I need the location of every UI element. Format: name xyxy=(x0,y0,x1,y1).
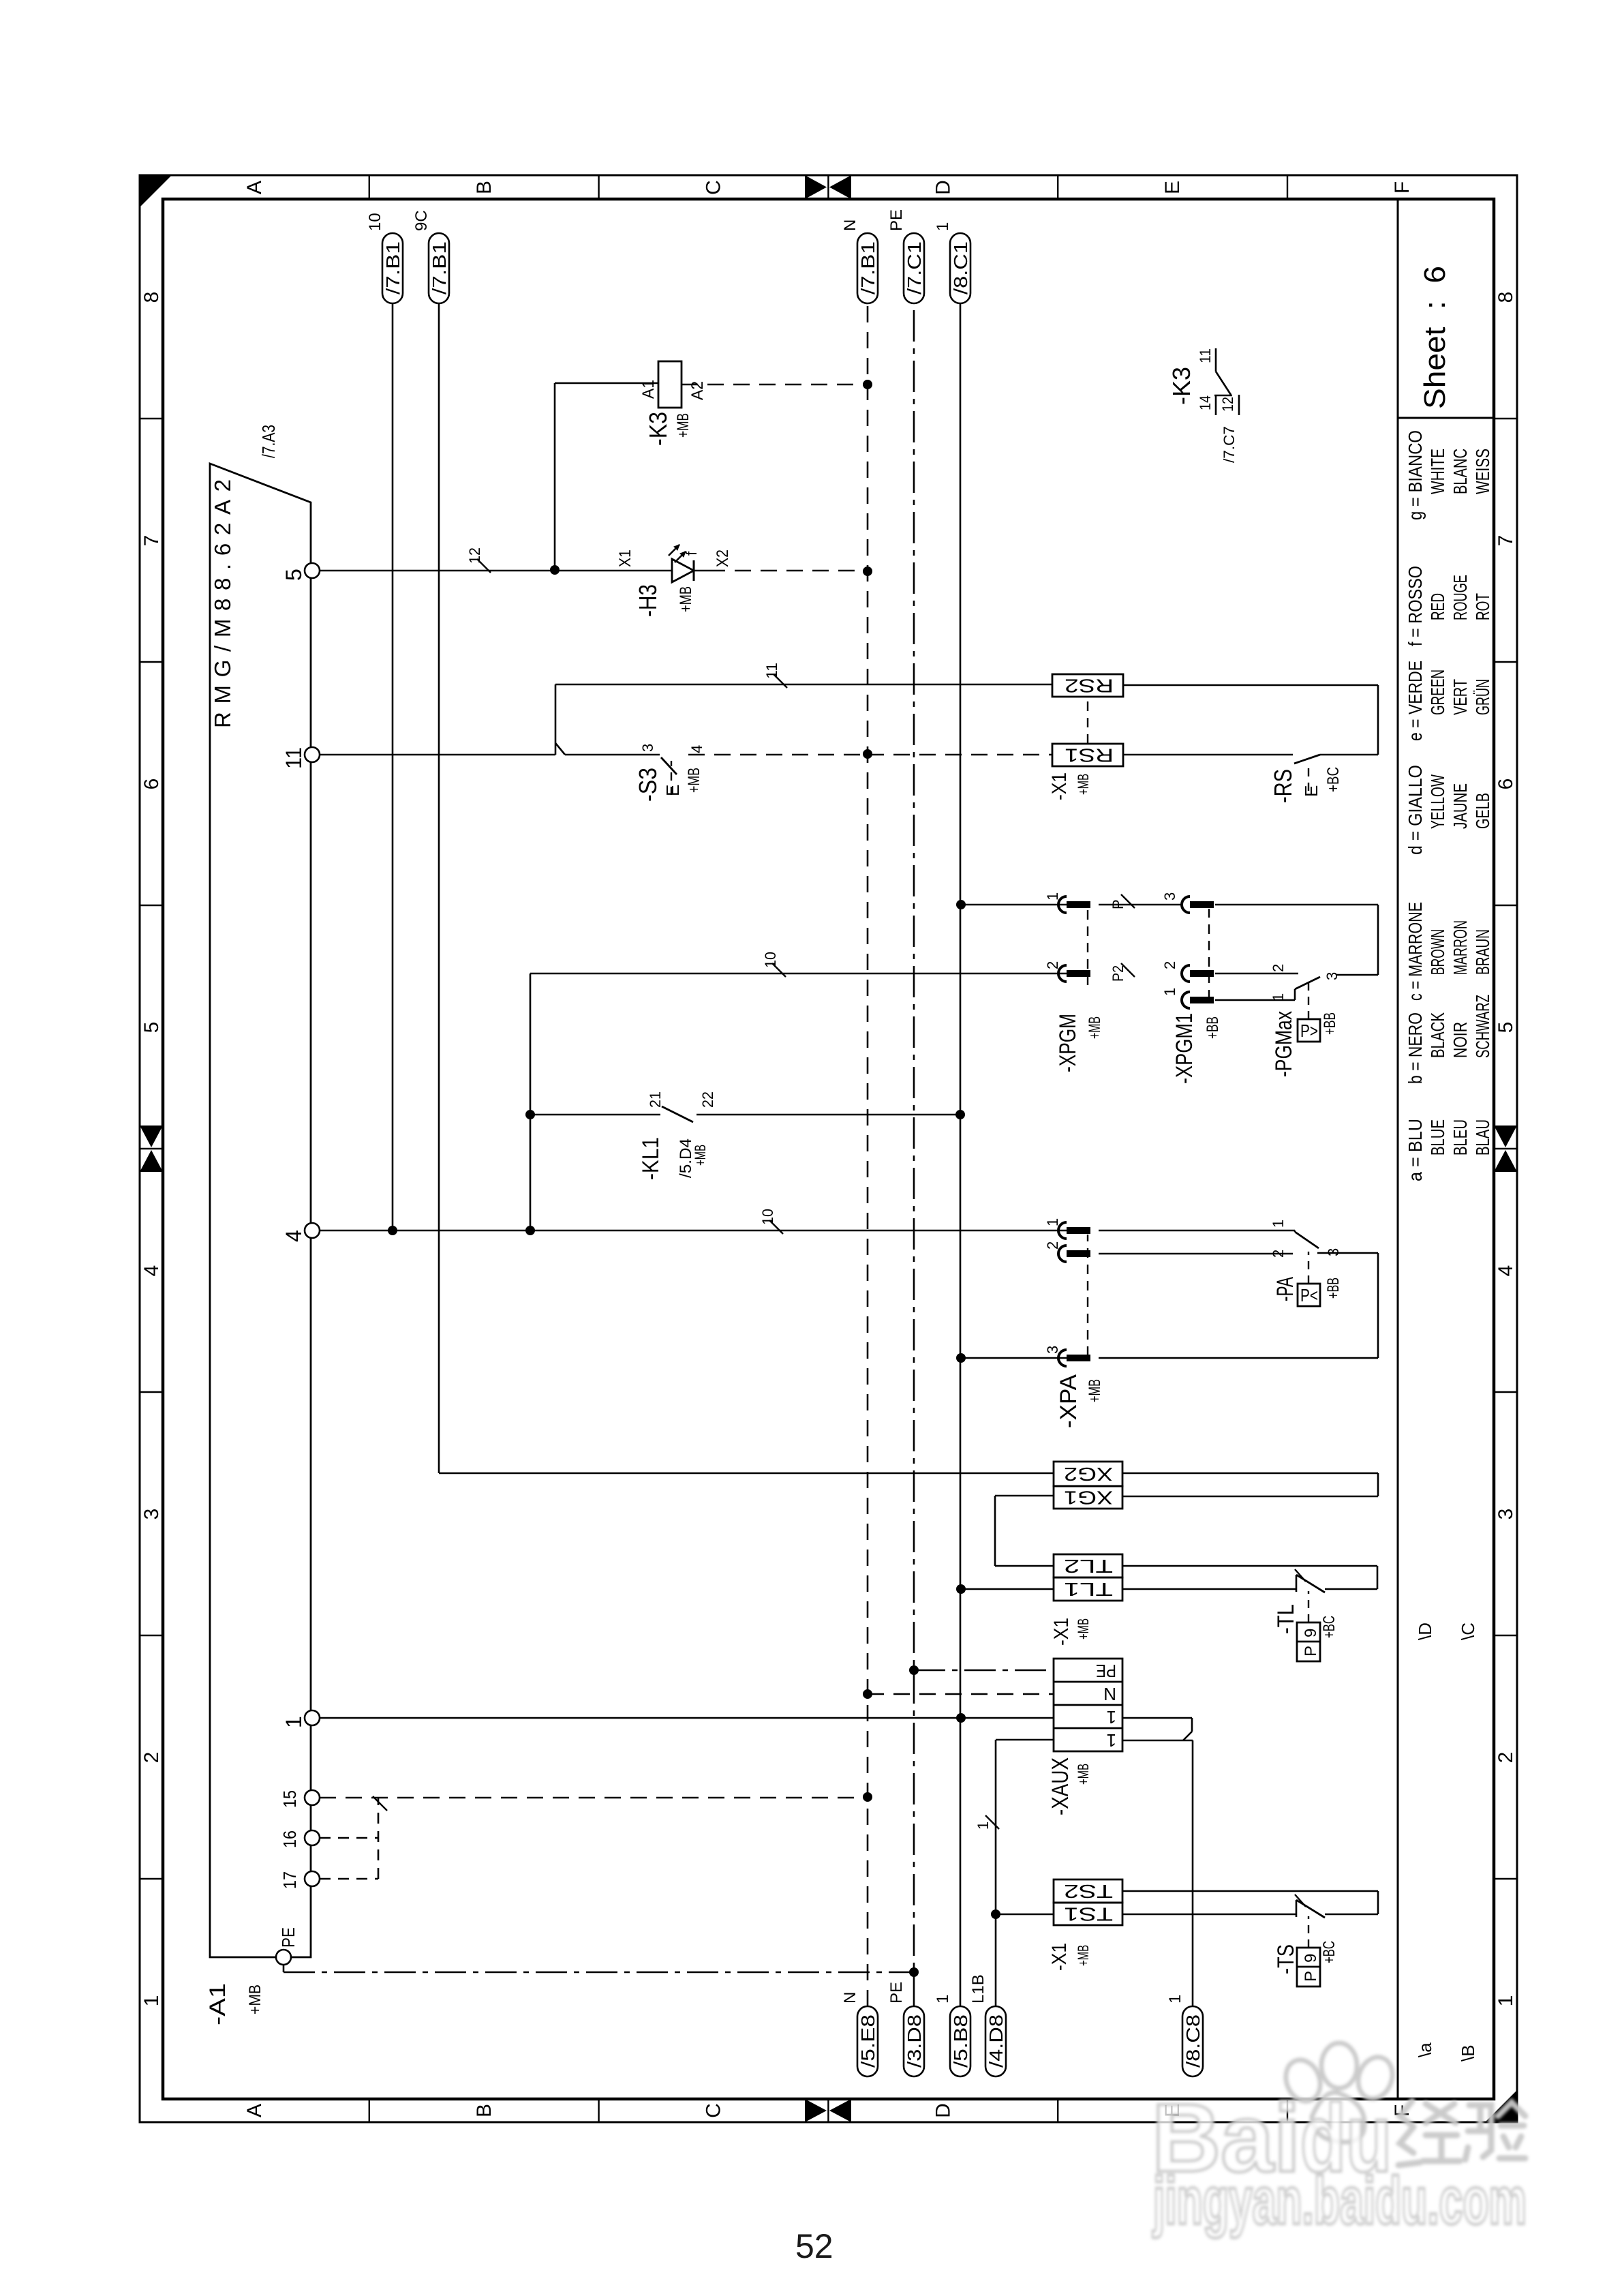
junction dot XAUX-N xyxy=(863,1689,872,1699)
wire S3-4 to N xyxy=(688,754,868,756)
jumper XPGM pins xyxy=(1087,909,1088,985)
svg-text:jingyan.baidu.com: jingyan.baidu.com xyxy=(1152,2163,1527,2238)
wire label 10 (XPGM2) xyxy=(772,963,786,977)
S3 actuator E link xyxy=(671,761,672,795)
interrupt point 1 /5.B8 xyxy=(950,2006,970,2076)
wire pin4-branch to XPGM-2 xyxy=(530,973,532,1230)
svg-text:PE: PE xyxy=(887,209,906,231)
svg-text:10: 10 xyxy=(762,952,779,968)
svg-text:+BB: +BB xyxy=(1321,1012,1339,1035)
svg-text:PE: PE xyxy=(887,1982,906,2004)
svg-text:8: 8 xyxy=(140,292,163,303)
svg-text:+MB: +MB xyxy=(1075,774,1092,795)
svg-text:17: 17 xyxy=(279,1871,300,1889)
svg-text:-K3: -K3 xyxy=(1167,367,1195,405)
svg-text:1: 1 xyxy=(1107,1707,1116,1727)
pin 11 xyxy=(305,747,320,762)
svg-text:YELLOW: YELLOW xyxy=(1427,774,1448,829)
svg-text:-X1: -X1 xyxy=(1048,1943,1071,1971)
switch PA xyxy=(1294,1230,1296,1232)
svg-text:P: P xyxy=(1302,1971,1320,1982)
junction dot H3-N xyxy=(863,567,872,576)
svg-text:X1: X1 xyxy=(616,549,634,567)
svg-text:-H3: -H3 xyxy=(634,584,662,617)
svg-text:P: P xyxy=(1302,1646,1320,1657)
svg-text:b = NERO: b = NERO xyxy=(1405,1012,1426,1084)
terminal X1:TL2 xyxy=(1054,1554,1122,1577)
svg-text:+MB: +MB xyxy=(1075,1945,1092,1966)
svg-text:+MB: +MB xyxy=(1086,1016,1104,1039)
svg-text:-K3: -K3 xyxy=(644,412,672,446)
svg-text:D: D xyxy=(932,2103,954,2118)
svg-text:6: 6 xyxy=(1495,779,1517,790)
terminal X1:XG1 xyxy=(1054,1486,1122,1509)
svg-text:-XAUX: -XAUX xyxy=(1047,1757,1073,1815)
wire pin4 down xyxy=(320,1230,1067,1232)
svg-text:-S3: -S3 xyxy=(634,768,662,802)
svg-text:/7.A3: /7.A3 xyxy=(258,425,279,458)
wire 10 xyxy=(392,303,394,1230)
svg-text:N: N xyxy=(841,220,859,231)
svg-text:\a: \a xyxy=(1415,2042,1435,2057)
svg-text:+BB: +BB xyxy=(1324,1278,1343,1299)
wire pin1 to XAUX xyxy=(320,1717,1054,1719)
svg-text:-PGMax: -PGMax xyxy=(1271,1011,1297,1077)
svg-text:ROT: ROT xyxy=(1472,593,1493,620)
wire XAUX PE to PE bus xyxy=(914,1670,1054,1672)
svg-text:+MB: +MB xyxy=(1075,1618,1092,1640)
branch to wire 11 xyxy=(555,684,557,755)
pin PE xyxy=(276,1950,291,1965)
terminal strip XAUX xyxy=(1054,1659,1122,1751)
svg-text:JAUNE: JAUNE xyxy=(1450,783,1471,829)
wire pin5 to H3 xyxy=(320,570,672,572)
wire RS1 down xyxy=(1123,754,1293,756)
svg-text:1: 1 xyxy=(1107,1730,1116,1751)
connector XPGM1 pin 3 xyxy=(1182,896,1190,913)
interrupt point N /5.E8 xyxy=(857,2006,878,2076)
svg-text:1: 1 xyxy=(934,222,952,231)
svg-text:+MB: +MB xyxy=(685,768,703,793)
connector XPA pin 2 xyxy=(1058,1245,1067,1262)
svg-text:5: 5 xyxy=(1495,1022,1517,1033)
svg-text:-X1: -X1 xyxy=(1050,1618,1073,1646)
wire L1 bus xyxy=(960,303,962,2006)
junction dot K3 branch xyxy=(550,565,560,575)
svg-text:BLAU: BLAU xyxy=(1472,1119,1493,1155)
svg-text:1: 1 xyxy=(1495,1995,1517,2007)
wire TS2 down xyxy=(1122,1890,1378,1892)
wire TL1 down xyxy=(1122,1588,1296,1590)
svg-text:1: 1 xyxy=(281,1716,306,1728)
interrupt point PE /3.D8 xyxy=(904,2006,924,2076)
relay coil K3 xyxy=(658,361,682,408)
svg-text:-TS: -TS xyxy=(1273,1944,1299,1974)
svg-text:2: 2 xyxy=(1044,961,1061,969)
svg-text:3: 3 xyxy=(1044,1346,1061,1354)
svg-text:-X1: -X1 xyxy=(1048,772,1071,800)
connector block A1 (RMG/M88.62A2) xyxy=(210,464,311,1957)
svg-text:2: 2 xyxy=(1044,1241,1061,1250)
svg-text:2: 2 xyxy=(1270,964,1287,972)
svg-text:RS2: RS2 xyxy=(1065,676,1114,697)
svg-text:c = MARRONE: c = MARRONE xyxy=(1405,902,1426,1001)
svg-text:GREEN: GREEN xyxy=(1427,669,1448,715)
svg-text:RS1: RS1 xyxy=(1065,745,1114,766)
LED H3 xyxy=(672,559,694,582)
svg-text:a = BLU: a = BLU xyxy=(1405,1119,1426,1181)
svg-text:PE: PE xyxy=(1096,1661,1116,1681)
wire RS loop xyxy=(1377,685,1379,755)
interrupt point N /7.B1 xyxy=(857,233,878,303)
svg-text:/7.B1: /7.B1 xyxy=(429,241,450,294)
svg-text:/8.C8: /8.C8 xyxy=(1182,2014,1204,2068)
svg-text:P>: P> xyxy=(1300,1021,1318,1041)
junction dot TL1-L1 xyxy=(956,1584,966,1594)
svg-text:10: 10 xyxy=(759,1209,776,1225)
svg-text:-KL1: -KL1 xyxy=(638,1137,664,1180)
svg-text:6: 6 xyxy=(140,779,163,790)
svg-text:BLANC: BLANC xyxy=(1450,449,1471,494)
svg-text:+MB: +MB xyxy=(677,586,695,612)
wire H3 X2 to N (dashed) xyxy=(694,570,709,572)
wire label 11 xyxy=(774,674,787,688)
svg-text:22: 22 xyxy=(699,1091,716,1108)
svg-text:TS1: TS1 xyxy=(1064,1904,1113,1925)
svg-text:e = VERDE: e = VERDE xyxy=(1405,661,1426,741)
svg-text:+MB: +MB xyxy=(246,1984,264,2014)
pin 17 xyxy=(305,1871,320,1886)
svg-text:B: B xyxy=(473,2104,495,2117)
svg-text:BLUE: BLUE xyxy=(1427,1119,1448,1155)
pressure switch box P> xyxy=(1298,1019,1320,1042)
junction dot TS1-L1B xyxy=(991,1909,1000,1919)
svg-text:GELB: GELB xyxy=(1472,793,1493,829)
svg-text:E: E xyxy=(1301,785,1321,797)
svg-text:f = ROSSO: f = ROSSO xyxy=(1405,566,1426,646)
svg-text:NOIR: NOIR xyxy=(1450,1022,1471,1058)
svg-text:/7.B1: /7.B1 xyxy=(857,241,878,294)
svg-text:P2: P2 xyxy=(1110,965,1127,982)
svg-text:VERT: VERT xyxy=(1450,679,1471,715)
svg-text:16: 16 xyxy=(279,1830,300,1848)
interrupt point 1 /8.C1 xyxy=(950,233,970,303)
junction dot S3-N xyxy=(863,749,872,759)
wire TL loop xyxy=(1377,1566,1379,1589)
connector XPGM pin 2 xyxy=(1058,965,1067,982)
svg-text:-XPA: -XPA xyxy=(1056,1374,1082,1428)
wire XPGM1-3 xyxy=(1099,904,1181,906)
wire TL1 to L1 xyxy=(961,1588,1054,1590)
svg-text:11: 11 xyxy=(1197,348,1214,363)
svg-text:g = BIANCO: g = BIANCO xyxy=(1405,430,1426,520)
svg-text:TL2: TL2 xyxy=(1064,1556,1113,1577)
switch TS (NC) xyxy=(1296,1900,1298,1917)
svg-text:C: C xyxy=(703,180,725,195)
svg-text:15: 15 xyxy=(279,1790,300,1808)
svg-text:/7.C7: /7.C7 xyxy=(1221,426,1238,463)
connector XPGM1 pin 2 xyxy=(1182,965,1190,982)
wire pin17 stub xyxy=(320,1878,378,1880)
svg-text:7: 7 xyxy=(140,535,163,547)
wire KL1 xyxy=(530,1114,660,1116)
svg-text:RMG/M88.62A2: RMG/M88.62A2 xyxy=(210,479,235,728)
svg-text:MARRON: MARRON xyxy=(1450,920,1471,975)
wire to K3 coil xyxy=(554,383,556,570)
junction dot KL1 branch xyxy=(525,1226,535,1235)
wire TL2 down xyxy=(1122,1565,1377,1567)
terminal X1:TS2 xyxy=(1054,1879,1122,1903)
svg-text:2: 2 xyxy=(1495,1752,1517,1764)
svg-text:-TL: -TL xyxy=(1273,1604,1299,1634)
svg-text:RED: RED xyxy=(1427,593,1448,620)
svg-text:BROWN: BROWN xyxy=(1427,929,1448,975)
svg-text:/7.B1: /7.B1 xyxy=(382,241,403,294)
svg-text:2: 2 xyxy=(1161,961,1178,969)
svg-text:Sheet : 6: Sheet : 6 xyxy=(1418,266,1452,409)
svg-text:ROUGE: ROUGE xyxy=(1450,575,1471,620)
svg-text:-RS: -RS xyxy=(1269,769,1297,803)
svg-text:3: 3 xyxy=(639,744,656,752)
svg-text:3: 3 xyxy=(140,1509,163,1520)
junction dot XPGM1-L1 xyxy=(956,900,966,909)
svg-text:E: E xyxy=(662,785,683,796)
wire RS2 down xyxy=(1123,684,1378,686)
wire PE pin xyxy=(283,1965,285,1972)
svg-text:4: 4 xyxy=(140,1265,163,1277)
svg-text:L1B: L1B xyxy=(969,1974,988,2004)
svg-text:BRAUN: BRAUN xyxy=(1472,929,1493,975)
svg-text:11: 11 xyxy=(281,747,306,769)
group bracket xyxy=(378,1798,380,1879)
wire XG loop xyxy=(1122,1472,1378,1475)
wire TS1 top xyxy=(996,1914,1054,1916)
svg-text:BLACK: BLACK xyxy=(1427,1012,1448,1058)
svg-text:-XPGM: -XPGM xyxy=(1055,1014,1081,1072)
jumper XPGM1 pins xyxy=(1208,909,1210,999)
svg-text:N: N xyxy=(841,1992,859,2004)
wire TS loop xyxy=(1377,1891,1379,1914)
wire XAUX N to N bus xyxy=(868,1693,1054,1695)
svg-text:3: 3 xyxy=(1161,892,1178,901)
connector XPA pin 3 xyxy=(1058,1350,1067,1366)
svg-text:4: 4 xyxy=(688,745,705,753)
svg-text:9: 9 xyxy=(1302,1954,1320,1963)
svg-text:+BC: +BC xyxy=(1320,1616,1338,1638)
wire N to RS1 (dashed) xyxy=(868,754,1052,756)
svg-text:3: 3 xyxy=(1495,1509,1517,1520)
wire K3 A2 to N xyxy=(682,384,868,386)
wire XG1 to TL2 xyxy=(995,1495,1054,1497)
terminal X1:RS2 xyxy=(1052,674,1123,697)
svg-text:/8.C1: /8.C1 xyxy=(950,241,971,294)
svg-text:1: 1 xyxy=(140,1995,163,2007)
svg-text:/5.B8: /5.B8 xyxy=(950,2014,971,2068)
switch RS xyxy=(1294,755,1320,764)
svg-text:11: 11 xyxy=(763,663,780,679)
svg-text:9C: 9C xyxy=(412,210,431,231)
svg-text:d = GIALLO: d = GIALLO xyxy=(1405,765,1426,855)
interrupt point PE /7.C1 xyxy=(904,233,924,303)
svg-text:+MB: +MB xyxy=(1086,1379,1104,1402)
svg-text:+BC: +BC xyxy=(1320,1941,1338,1963)
terminal X1:TL1 xyxy=(1054,1577,1122,1601)
wire N bus xyxy=(867,303,869,2006)
svg-text:1: 1 xyxy=(1161,988,1178,996)
svg-text:21: 21 xyxy=(647,1091,664,1108)
svg-text:2: 2 xyxy=(140,1752,163,1764)
svg-text:8: 8 xyxy=(1495,292,1517,303)
jumper XPA pins xyxy=(1087,1235,1088,1356)
svg-text:7: 7 xyxy=(1495,535,1517,547)
pin 15 xyxy=(305,1790,320,1805)
junction dot XPA3-L1 xyxy=(956,1353,966,1363)
wire L1B xyxy=(995,1740,997,2006)
svg-text:f: f xyxy=(683,551,700,556)
svg-text:\C: \C xyxy=(1458,1622,1478,1640)
svg-text:C: C xyxy=(703,2103,725,2118)
svg-text:A: A xyxy=(243,2104,266,2117)
junction dot KL1-L1 xyxy=(955,1110,965,1119)
svg-text:A: A xyxy=(243,181,266,194)
svg-text:1: 1 xyxy=(934,1995,952,2004)
svg-text:WHITE: WHITE xyxy=(1427,449,1448,494)
svg-text:52: 52 xyxy=(795,2227,833,2265)
svg-text:/3.D8: /3.D8 xyxy=(904,2014,925,2068)
switch PGMax xyxy=(1294,989,1296,1000)
svg-text:9: 9 xyxy=(1302,1629,1320,1637)
pin 5 xyxy=(305,563,320,578)
svg-text:+MB: +MB xyxy=(674,413,692,438)
wire pin16 stub xyxy=(320,1837,378,1839)
svg-text:2: 2 xyxy=(1270,1250,1287,1258)
wire XAUX-1b down xyxy=(1122,1740,1193,1742)
pushbutton box TS P/9 xyxy=(1297,1948,1320,1987)
svg-text:GRÜN: GRÜN xyxy=(1472,679,1493,715)
junction dot pin15-N xyxy=(863,1792,872,1802)
connector XPGM pin 1 xyxy=(1058,896,1067,913)
pin 16 xyxy=(305,1830,320,1845)
svg-text:5: 5 xyxy=(140,1022,163,1033)
svg-text:PE: PE xyxy=(278,1927,299,1948)
wire 9C xyxy=(438,303,440,1473)
svg-text:P: P xyxy=(1110,899,1127,909)
pin 1 xyxy=(305,1710,320,1725)
svg-text:1: 1 xyxy=(1044,892,1061,901)
svg-text:D: D xyxy=(932,180,954,195)
wire pin11 to S3 xyxy=(565,754,660,756)
svg-text:1: 1 xyxy=(1044,1218,1061,1226)
wire L1 to XPGM-1 xyxy=(961,904,1067,906)
contact KL1 21/22 xyxy=(662,1106,693,1122)
jumper RS1-RS2 xyxy=(1087,697,1088,744)
wire pin15 to N xyxy=(320,1797,868,1799)
svg-text:/5.E8: /5.E8 xyxy=(857,2014,878,2068)
wire label 12 xyxy=(477,559,491,573)
svg-text:1: 1 xyxy=(1270,993,1287,1001)
svg-text:/7.C1: /7.C1 xyxy=(904,241,925,294)
svg-text:\B: \B xyxy=(1458,2044,1478,2061)
junction dot XAUX-PE xyxy=(909,1665,919,1675)
junction dot PEpin-PE xyxy=(909,1967,919,1977)
wire label P xyxy=(1121,894,1135,908)
svg-text:10: 10 xyxy=(366,213,384,231)
wire XAUX-1a right loop xyxy=(1122,1717,1192,1719)
svg-text:12: 12 xyxy=(466,547,483,564)
wire TS1 down xyxy=(1122,1914,1296,1916)
svg-text:-XPGM1: -XPGM1 xyxy=(1172,1013,1197,1084)
switch TL (NC) xyxy=(1296,1575,1298,1592)
svg-text:N: N xyxy=(1103,1684,1116,1704)
svg-text:14: 14 xyxy=(1197,395,1214,410)
interrupt point 1 /8.C8 xyxy=(1182,2006,1203,2076)
wire XPA-1 to PA xyxy=(1099,1230,1295,1232)
terminal X1:TS1 xyxy=(1054,1903,1122,1925)
wire 11 down to RS2 xyxy=(555,684,1052,686)
wire XPA-2 xyxy=(1099,1253,1293,1255)
svg-text:F: F xyxy=(1391,181,1413,194)
pressure switch box P< xyxy=(1298,1284,1320,1306)
svg-text:-PA: -PA xyxy=(1272,1277,1298,1301)
wire pin11 down xyxy=(320,754,555,756)
svg-text:\D: \D xyxy=(1415,1622,1435,1640)
svg-text:A1: A1 xyxy=(639,380,658,399)
svg-text:+BC: +BC xyxy=(1324,767,1343,792)
svg-text:1: 1 xyxy=(1270,1220,1287,1228)
wire label 1 (L1B) xyxy=(985,1815,999,1829)
svg-text:+BB: +BB xyxy=(1204,1016,1222,1039)
svg-text:TS2: TS2 xyxy=(1064,1881,1113,1902)
wire 9C to XG2 xyxy=(439,1472,1054,1475)
interrupt point 10 /7.B1 xyxy=(382,233,403,303)
svg-text:3: 3 xyxy=(1323,972,1341,980)
wire label 10 (pin4) xyxy=(769,1220,783,1234)
terminal X1:RS1 xyxy=(1052,744,1123,766)
svg-text:4: 4 xyxy=(281,1230,306,1242)
interrupt point 9C /7.B1 xyxy=(429,233,449,303)
pushbutton box TL P/9 xyxy=(1297,1622,1320,1661)
svg-text:B: B xyxy=(473,181,495,194)
svg-text:12: 12 xyxy=(1219,397,1236,412)
svg-text:SCHWARZ: SCHWARZ xyxy=(1472,995,1493,1058)
svg-text:4: 4 xyxy=(1495,1265,1517,1277)
svg-text:X2: X2 xyxy=(714,549,732,567)
pin 4 xyxy=(305,1223,320,1238)
svg-text:TL1: TL1 xyxy=(1064,1579,1113,1600)
svg-text:/4.D8: /4.D8 xyxy=(985,2014,1007,2068)
svg-text:-A1: -A1 xyxy=(205,1983,230,2025)
svg-text:5: 5 xyxy=(281,569,306,581)
interrupt point L1B /4.D8 xyxy=(985,2006,1006,2076)
connector XPA pin 1 xyxy=(1058,1222,1067,1239)
junction dot K3-N xyxy=(863,380,872,389)
wire XPGM1-1 to PGMax xyxy=(1215,999,1295,1001)
svg-text:P<: P< xyxy=(1300,1285,1318,1305)
junction dot wire10 xyxy=(388,1226,397,1235)
junction dot KL1 wire xyxy=(525,1110,535,1119)
svg-text:+MB: +MB xyxy=(1075,1764,1092,1785)
wire XPA loop xyxy=(1377,1253,1379,1358)
svg-text:E: E xyxy=(1161,181,1184,194)
svg-text:+MB: +MB xyxy=(692,1145,709,1166)
terminal X1:XG2 xyxy=(1054,1462,1122,1486)
wire label P2 xyxy=(1121,963,1135,977)
svg-text:XG1: XG1 xyxy=(1064,1487,1113,1509)
svg-text:1: 1 xyxy=(1166,1995,1184,2004)
wire PE bus xyxy=(913,303,915,2006)
svg-text:WEISS: WEISS xyxy=(1472,449,1493,494)
svg-text:XG2: XG2 xyxy=(1064,1464,1113,1485)
